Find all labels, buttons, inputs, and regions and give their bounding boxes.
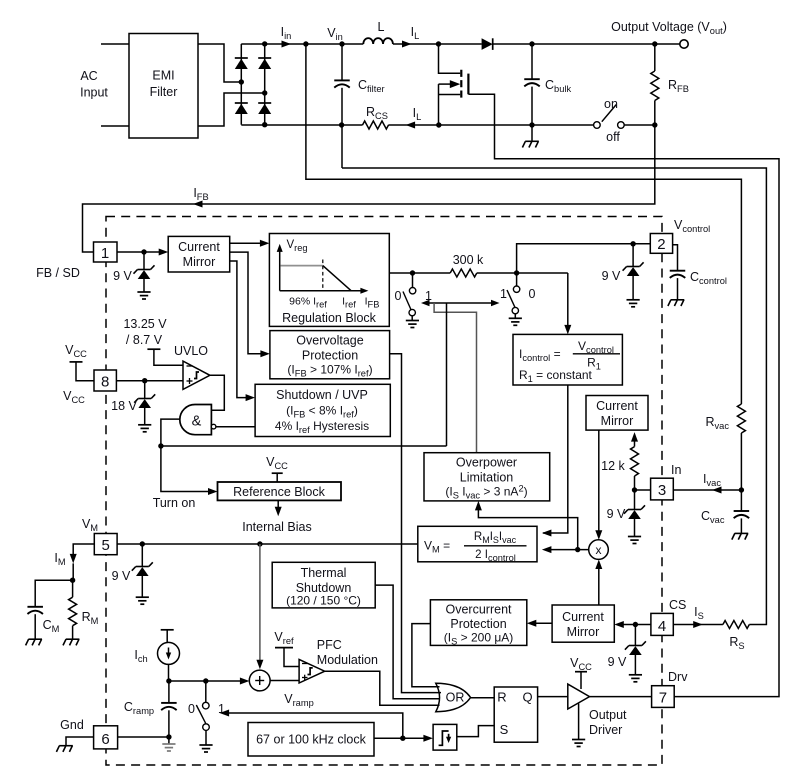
wire Icontrol output to VM box xyxy=(543,385,568,533)
node pin4 zener tap xyxy=(633,622,638,627)
switch S2 upper contact xyxy=(516,273,518,286)
UVLO threshold T-bar xyxy=(147,348,160,350)
pin 3 box xyxy=(651,478,674,500)
svg-text:OR: OR xyxy=(446,691,465,705)
svg-text:AC: AC xyxy=(80,69,97,83)
svg-text:300 k: 300 k xyxy=(453,253,484,267)
svg-text:Internal Bias: Internal Bias xyxy=(242,520,311,534)
ground S1 xyxy=(411,316,413,321)
EMI Filter block xyxy=(129,34,198,139)
ground pin6 (chassis) xyxy=(59,745,73,747)
switch S2 blade xyxy=(507,290,515,307)
wire 300k node down to Icontrol block xyxy=(567,273,569,327)
block VM equation xyxy=(418,526,537,562)
switch on/off left contact xyxy=(594,122,601,129)
ground Cvac (chassis) xyxy=(735,532,749,534)
wire ramp node to adder xyxy=(169,680,243,682)
transistor Q1 channel (dashed) xyxy=(460,70,462,98)
wire VCC to pin 8 xyxy=(76,362,94,381)
node Cfilter bottom xyxy=(339,122,344,127)
wire threshold to UVLO minus xyxy=(154,349,183,365)
node clock branch xyxy=(400,736,405,741)
svg-text:Mirror: Mirror xyxy=(183,255,216,269)
svg-text:Overvoltage: Overvoltage xyxy=(296,334,363,348)
svg-text:9 V: 9 V xyxy=(608,655,627,669)
ground Ccontrol (chassis) xyxy=(671,299,685,301)
wire bridge right leg xyxy=(264,44,266,125)
svg-text:off: off xyxy=(606,130,620,144)
VCC reference T-bar xyxy=(272,472,283,474)
svg-text:Overpower: Overpower xyxy=(456,456,517,470)
switch ramp upper contact xyxy=(205,681,207,702)
zener 9V pin1 xyxy=(143,252,145,270)
svg-text:1: 1 xyxy=(101,245,109,262)
VCC driver T-bar xyxy=(575,671,587,673)
node IM xyxy=(70,578,75,583)
svg-text:Mirror: Mirror xyxy=(601,414,634,428)
svg-text:5: 5 xyxy=(102,537,110,554)
block Thermal Shutdown xyxy=(272,562,375,608)
wire bottom rail xyxy=(241,124,362,126)
switch S2 lower contact xyxy=(512,307,518,313)
resistor RCS xyxy=(363,121,389,129)
svg-text:Modulation: Modulation xyxy=(317,653,378,667)
adder circle xyxy=(249,670,270,691)
svg-text:4: 4 xyxy=(658,618,666,635)
VCC supply T-bar xyxy=(70,361,83,363)
wire AND output to shutdown block xyxy=(216,426,255,428)
capacitor Cfilter xyxy=(341,44,343,80)
wire top rail Vin xyxy=(241,43,363,45)
node Vin / Cfilter xyxy=(339,41,344,46)
node pin6 gnd tie xyxy=(166,734,171,739)
svg-text:Current: Current xyxy=(178,240,220,254)
IFB arrow xyxy=(193,201,203,208)
wire bridge left leg xyxy=(240,44,242,125)
wire node to pin3 xyxy=(635,489,651,491)
wire pin8 to UVLO plus xyxy=(116,380,183,382)
UVLO hysteresis glyph xyxy=(194,372,199,379)
diode bridge bottom-right xyxy=(258,102,271,104)
switch on/off blade xyxy=(602,105,616,122)
diode bridge top-right xyxy=(258,57,271,59)
wire pin1 to current mirror xyxy=(117,251,162,253)
svg-text:Output: Output xyxy=(589,708,627,722)
wire turn-on to reference block xyxy=(161,446,211,492)
node VM to adder xyxy=(257,541,262,546)
block 67 or 100 kHz clock xyxy=(248,723,374,757)
node Cbulk top xyxy=(529,41,534,46)
block Current Mirror (CS) xyxy=(552,605,614,642)
wire Vref to PFC minus xyxy=(284,648,299,667)
wire IFB feedback line to pin 1 xyxy=(83,125,655,252)
pin 7 box xyxy=(652,686,675,708)
op-amp PFC modulation comparator xyxy=(299,659,325,683)
svg-text:Filter: Filter xyxy=(150,85,178,99)
wire VM to adder (gray) xyxy=(259,544,261,662)
svg-text:3: 3 xyxy=(658,482,666,499)
switch ramp blade xyxy=(196,705,206,724)
wire current mirror to OVP xyxy=(230,252,263,354)
pin 8 box xyxy=(94,370,116,391)
graph Vreg y-axis xyxy=(279,248,281,291)
zener 9V pin3 xyxy=(634,490,636,510)
block Current Mirror (vac) xyxy=(586,396,648,431)
wire Vin sense routing + resistor Rvac xyxy=(306,44,742,404)
switch S1 upper contact xyxy=(412,273,414,287)
UVLO minus sign xyxy=(187,365,193,367)
multiplier X circle xyxy=(589,540,609,560)
pin 2 box xyxy=(650,234,672,254)
ground pin1 zener xyxy=(143,279,145,292)
svg-text:2: 2 xyxy=(657,236,665,253)
svg-text:Mirror: Mirror xyxy=(567,625,600,639)
ground pin3 zener xyxy=(634,519,636,537)
node RFB bottom / feedback xyxy=(652,122,657,127)
svg-text:L: L xyxy=(378,20,385,34)
node pin5 zener tap xyxy=(140,541,145,546)
node bridge right midpoint xyxy=(262,90,267,95)
ground Cramp (gray) xyxy=(162,743,175,745)
Iin arrow xyxy=(282,41,292,48)
wire pin6 to ground node xyxy=(118,736,169,738)
svg-text:6: 6 xyxy=(101,731,109,748)
switch S1 lower contact xyxy=(409,309,415,315)
block Overcurrent Protection xyxy=(430,600,526,646)
ground S2 xyxy=(514,314,516,319)
wire AC input bottom lead xyxy=(101,125,129,127)
IL arrow return (left) xyxy=(406,122,416,129)
wire PFC output to OR gate xyxy=(325,671,440,705)
wire node to CM xyxy=(35,580,72,607)
switch control double arrow xyxy=(425,302,497,304)
wire adder to PFC plus xyxy=(270,680,299,682)
transistor Q1 MOSFET drain lead xyxy=(439,44,461,73)
wire pin4 to mirror3 xyxy=(621,624,651,626)
wire X output to VM box xyxy=(547,549,589,551)
svg-text:Shutdown / UVP: Shutdown / UVP xyxy=(276,388,368,402)
block Icontrol equation xyxy=(513,334,622,385)
adder plus sign xyxy=(255,680,264,682)
svg-text:Drv: Drv xyxy=(668,670,688,684)
node MOSFET source on rail xyxy=(436,122,441,127)
zener 18V xyxy=(144,381,146,399)
svg-text:9 V: 9 V xyxy=(112,569,131,583)
transistor Q1 source lead xyxy=(439,94,461,96)
svg-text:9 V: 9 V xyxy=(607,507,626,521)
node bridge top-right xyxy=(262,41,267,46)
svg-text:UVLO: UVLO xyxy=(174,344,208,358)
svg-text:Overcurrent: Overcurrent xyxy=(446,603,513,617)
node top rail to Rvac sense xyxy=(303,41,308,46)
IL arrow after inductor xyxy=(402,41,412,48)
wire UVLO output to AND gate xyxy=(210,375,224,410)
svg-text:67 or 100 kHz clock: 67 or 100 kHz clock xyxy=(256,733,367,747)
transistor Q1 body arrow xyxy=(439,83,451,85)
svg-text:Current: Current xyxy=(596,399,638,413)
PFC plus sign xyxy=(302,677,308,679)
svg-text:9 V: 9 V xyxy=(113,269,132,283)
node ramp xyxy=(166,678,171,683)
node bridge bottom-right xyxy=(262,122,267,127)
block Reference Block xyxy=(218,482,342,500)
block Overpower Limitation xyxy=(424,453,550,501)
driver ground lead xyxy=(578,704,580,740)
wire pin4 to RS xyxy=(673,624,723,626)
svg-text:(120 / 150 °C): (120 / 150 °C) xyxy=(286,594,361,608)
resistor RFB xyxy=(654,44,656,71)
wire terminal stub + output terminal xyxy=(680,40,688,48)
wire clock to ramp switch arrow xyxy=(226,713,403,738)
block Regulation Block xyxy=(269,234,389,327)
node bridge left midpoint xyxy=(239,79,244,84)
wire clock to one-shot xyxy=(374,737,426,739)
node RFB top xyxy=(652,41,657,46)
one-shot box xyxy=(433,724,457,750)
wire EMI to bridge upper xyxy=(198,44,241,82)
svg-text:In: In xyxy=(671,463,681,477)
svg-text:0: 0 xyxy=(188,702,195,716)
node ramp switch tap xyxy=(203,678,208,683)
ground pin2 zener xyxy=(632,276,634,300)
wire thermal to OR gate xyxy=(375,585,440,699)
diode boost D xyxy=(482,38,493,50)
UVLO plus sign xyxy=(187,380,193,382)
op-amp UVLO comparator xyxy=(183,361,210,389)
svg-text:8: 8 xyxy=(101,374,109,391)
svg-text:Q: Q xyxy=(522,690,532,705)
wire one-shot to latch S xyxy=(457,726,494,737)
wire EMI to bridge lower xyxy=(198,93,265,126)
switch S1 blade xyxy=(403,292,411,310)
diode bridge bottom-left xyxy=(235,102,248,104)
node switch S1 tap xyxy=(410,270,415,275)
Vref T-bar xyxy=(275,647,293,649)
wire OVP output down to OR gate xyxy=(390,354,441,693)
svg-text:Reference Block: Reference Block xyxy=(233,485,325,499)
resistor 12k with arrow into mirror xyxy=(634,476,636,490)
svg-text:Regulation Block: Regulation Block xyxy=(282,311,377,325)
switch ramp lower contact xyxy=(203,724,210,731)
Ivac arrow xyxy=(712,487,722,494)
wire driver to pin7 xyxy=(590,696,652,698)
Ich internal arrow xyxy=(168,648,170,656)
wire OR to latch R xyxy=(471,697,495,699)
block Overvoltage Protection xyxy=(270,331,390,379)
wire current mirror to Shutdown/UVP xyxy=(230,261,249,398)
graph flat segment (gray) xyxy=(280,265,322,267)
pin 6 box xyxy=(94,726,118,749)
PFC minus sign xyxy=(302,663,308,665)
svg-text:18 V: 18 V xyxy=(111,399,137,413)
PFC hysteresis glyph xyxy=(308,668,313,675)
graph dashed threshold xyxy=(322,260,324,291)
wire pin5 to VM block xyxy=(117,543,418,545)
ground pin4 zener xyxy=(634,655,636,675)
node Cbulk bottom / ground xyxy=(529,122,534,127)
wire current mirror3 up to X bottom xyxy=(598,565,600,605)
capacitor Cbulk xyxy=(531,44,533,79)
svg-text:Current: Current xyxy=(562,610,604,624)
graph falling segment xyxy=(323,266,351,291)
node turn-on xyxy=(158,443,163,448)
current source Ich circle xyxy=(158,642,180,664)
wire Vcontrol line to pin 2 xyxy=(517,244,651,273)
svg-text:x: x xyxy=(596,543,602,557)
svg-text:Output Voltage (Vout): Output Voltage (Vout) xyxy=(611,20,727,36)
svg-text:7: 7 xyxy=(659,690,667,707)
wire 300k to Icontrol tap xyxy=(477,272,568,274)
ground Cbulk (chassis) xyxy=(531,125,533,141)
wire regulation output to 300k xyxy=(389,272,450,274)
pin 4 box xyxy=(651,613,673,635)
svg-text:Turn on: Turn on xyxy=(153,496,196,510)
capacitor Cvac xyxy=(740,490,742,511)
resistor 300k xyxy=(450,269,477,277)
node pin1 zener tap xyxy=(141,249,146,254)
wire current mirror2 down to X top xyxy=(598,430,600,534)
wire gate drive routing to Drv pin 7 xyxy=(468,94,779,696)
wire Ich to ramp node xyxy=(168,664,170,681)
wire AC input top lead xyxy=(101,43,129,45)
diode bridge top-left xyxy=(235,57,248,59)
ground 18V zener xyxy=(144,408,146,425)
svg-text:Thermal: Thermal xyxy=(301,566,347,580)
switch on/off right contact xyxy=(618,122,625,129)
gate OR xyxy=(436,683,471,711)
wire switch control jog to overpower (gray) xyxy=(434,303,476,453)
IC dashed boundary xyxy=(106,217,662,766)
wire switch control from shutdown node xyxy=(446,303,448,446)
node switch S2 tap xyxy=(514,270,519,275)
svg-text:S: S xyxy=(500,722,509,737)
svg-text:Gnd: Gnd xyxy=(60,718,84,732)
svg-text:Input: Input xyxy=(80,86,108,100)
svg-text:Protection: Protection xyxy=(302,349,358,363)
node pin2 zener tap xyxy=(630,241,635,246)
inductor L xyxy=(363,38,393,44)
svg-text:Driver: Driver xyxy=(589,723,622,737)
AND output bubble xyxy=(211,424,216,429)
capacitor CM xyxy=(27,606,43,608)
svg-text:PFC: PFC xyxy=(317,638,342,652)
block Shutdown / UVP xyxy=(255,384,390,436)
svg-text:EMI: EMI xyxy=(152,69,174,83)
wire pin3 to Rvac node xyxy=(673,489,741,491)
zener 9V pin2 xyxy=(632,244,634,267)
svg-text:Protection: Protection xyxy=(450,617,506,631)
node X output branch xyxy=(575,547,580,552)
pin 5 box xyxy=(94,534,117,555)
node 18V zener tap xyxy=(142,378,147,383)
op-amp Output Driver xyxy=(568,684,590,709)
wire AND input from turn-on node xyxy=(161,419,180,446)
current source Ich T-bar xyxy=(161,629,174,631)
svg-text:CS: CS xyxy=(669,598,686,612)
node Rvac-Cvac xyxy=(739,487,744,492)
transistor Q1 gate bar xyxy=(467,74,469,95)
ground RM (chassis) xyxy=(66,638,80,640)
wire pin5 left / IM branch xyxy=(73,544,94,555)
svg-text:on: on xyxy=(604,97,618,111)
svg-text:4% Iref Hysteresis: 4% Iref Hysteresis xyxy=(275,419,369,435)
svg-text:&: & xyxy=(192,414,202,430)
latch RS box xyxy=(494,687,537,742)
svg-text:9 V: 9 V xyxy=(602,269,621,283)
zener 9V pin4 xyxy=(634,625,636,646)
graph x-axis xyxy=(280,290,363,292)
svg-text:13.25 V: 13.25 V xyxy=(123,317,167,331)
node pin3 xyxy=(632,487,637,492)
wire overcurrent output to OR gate xyxy=(412,624,440,687)
svg-text:Limitation: Limitation xyxy=(460,471,514,485)
ground pin5 zener xyxy=(141,576,143,597)
svg-text:FB / SD: FB / SD xyxy=(36,266,80,280)
block Current Mirror (FB) xyxy=(168,236,230,272)
capacitor Ccontrol xyxy=(673,245,678,271)
IS arrow xyxy=(693,621,703,628)
svg-text:R: R xyxy=(497,690,506,705)
wire pin6 left lead xyxy=(66,737,94,746)
wire latch Q to driver xyxy=(538,696,568,698)
wire turn-on node to switch control xyxy=(161,445,447,447)
ground ramp switch xyxy=(205,730,207,745)
gate AND (&) xyxy=(180,405,212,435)
one-shot glyph xyxy=(439,731,449,745)
wire RS to bottom rail sense xyxy=(342,168,766,625)
wire mirror3 to overcurrent xyxy=(533,622,552,624)
node MOSFET drain on rail xyxy=(436,41,441,46)
svg-text:0: 0 xyxy=(395,289,402,303)
arrow internal bias xyxy=(277,500,279,509)
svg-text:/ 8.7 V: / 8.7 V xyxy=(126,333,163,347)
resistor RS xyxy=(723,621,749,629)
zener 9V pin5 xyxy=(141,544,143,567)
svg-text:1: 1 xyxy=(500,287,507,301)
ground CM (chassis) xyxy=(28,638,42,640)
svg-text:0: 0 xyxy=(529,287,536,301)
resistor RM xyxy=(72,580,74,597)
svg-text:12 k: 12 k xyxy=(601,459,625,473)
pin 1 box xyxy=(94,242,118,262)
wire current mirror to regulation block xyxy=(230,242,263,244)
capacitor Cramp xyxy=(168,681,170,703)
wire X node to overpower input xyxy=(478,508,577,550)
